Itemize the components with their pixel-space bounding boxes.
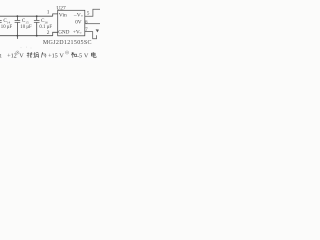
- svg-text:o: o: [80, 31, 82, 35]
- caption hanzi zhuan 转: [27, 52, 33, 57]
- svg-text:V: V: [19, 52, 24, 59]
- caption hanzi wei 为: [41, 52, 46, 58]
- capacitor C16: [34, 16, 40, 36]
- capacitor C15: [15, 16, 21, 36]
- svg-text:Vin: Vin: [59, 13, 67, 19]
- arrowhead mark at right edge: [96, 29, 99, 32]
- svg-text:+12: +12: [7, 52, 17, 59]
- wire jog into +Vin pin 1: [53, 14, 58, 16]
- wire top +12V rail: [0, 15, 53, 17]
- svg-text:0V: 0V: [75, 20, 82, 26]
- node junction dot top rail at C16: [36, 15, 38, 17]
- caption footnote circle 2: [65, 51, 68, 54]
- node junction dot bottom rail at C16: [36, 35, 38, 37]
- svg-text:10 µF: 10 µF: [20, 25, 32, 30]
- caption footnote circle 1: [16, 51, 19, 54]
- svg-text:-5: -5: [77, 52, 82, 59]
- wire bottom GND rail: [0, 35, 53, 37]
- svg-text:15: 15: [25, 20, 29, 24]
- DC-DC converter U27 box: [58, 10, 85, 36]
- faint paper noise specks: [21, 47, 22, 48]
- caption hanzi dian 电: [91, 52, 96, 57]
- svg-text:10 µF: 10 µF: [1, 25, 13, 30]
- svg-text:–V: –V: [73, 13, 81, 19]
- svg-text:1: 1: [0, 53, 2, 59]
- caption hanzi he 和: [71, 52, 76, 58]
- ground stem: [16, 36, 18, 39]
- svg-text:V: V: [59, 52, 64, 59]
- svg-text:14: 14: [7, 20, 11, 24]
- svg-text:GND: GND: [58, 29, 69, 35]
- svg-text:16: 16: [44, 20, 48, 24]
- svg-text:MGJ2D121505SC: MGJ2D121505SC: [43, 40, 92, 46]
- wire pin5 -Vo step up to edge: [85, 9, 100, 16]
- wire pin7 +Vo down and right: [85, 32, 97, 39]
- caption hanzi huan 换: [33, 52, 39, 58]
- svg-text:U27: U27: [56, 6, 66, 12]
- node junction dot bottom rail at C15: [17, 35, 19, 37]
- svg-text:1: 1: [47, 9, 50, 15]
- node junction dot top rail at C15: [17, 15, 19, 17]
- svg-text:2: 2: [47, 30, 50, 36]
- svg-text:V: V: [84, 52, 89, 59]
- wire pin6 0V to edge: [85, 23, 100, 25]
- wire jog into GND pin 2: [53, 32, 58, 35]
- svg-text:+15: +15: [48, 52, 58, 59]
- svg-text:o: o: [81, 14, 83, 18]
- capacitor C14 (cut off at left edge): [0, 21, 2, 23]
